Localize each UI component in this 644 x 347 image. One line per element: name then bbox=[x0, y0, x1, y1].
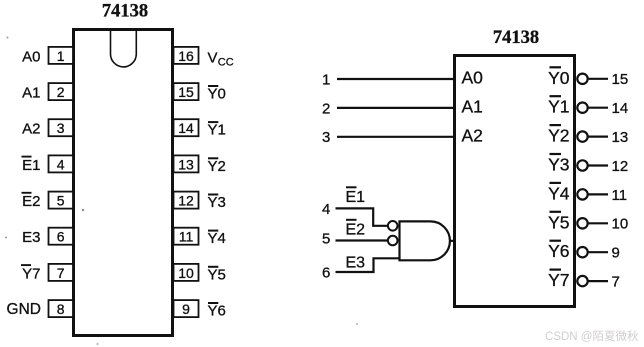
pin 6 number bbox=[322, 265, 330, 282]
wire Y1 to pin 14 bbox=[589, 107, 609, 109]
IC U1 title 74138 (DIP pinout) bbox=[102, 2, 148, 22]
svg-text:6: 6 bbox=[322, 265, 330, 282]
pin 6 box bbox=[49, 228, 74, 245]
inverter bubble Y6 bbox=[577, 247, 587, 257]
svg-text:Y3: Y3 bbox=[548, 155, 569, 175]
pin 4 number bbox=[322, 201, 330, 218]
inverter bubble Y0 bbox=[577, 74, 587, 84]
pin 8 box bbox=[49, 300, 74, 317]
scan speck bbox=[82, 209, 84, 211]
pin Y6-bar label bbox=[548, 241, 569, 262]
pin 10 box bbox=[174, 264, 199, 281]
svg-text:7: 7 bbox=[612, 274, 620, 291]
scan speck bbox=[5, 237, 7, 239]
pin Y5-bar label bbox=[208, 266, 226, 283]
wire input 1 to A0 bbox=[337, 78, 454, 80]
svg-text:13: 13 bbox=[612, 129, 629, 146]
svg-text:Y6: Y6 bbox=[208, 303, 226, 320]
pin 2 number bbox=[322, 100, 330, 117]
svg-text:15: 15 bbox=[178, 84, 194, 100]
pin 15 number bbox=[612, 71, 629, 88]
svg-text:Y4: Y4 bbox=[208, 230, 226, 247]
svg-text:7: 7 bbox=[57, 265, 65, 281]
pin GND label bbox=[7, 301, 41, 318]
svg-text:A2: A2 bbox=[22, 121, 40, 138]
pin 1 number bbox=[322, 71, 330, 88]
pin 11 box bbox=[174, 228, 199, 245]
svg-text:Y5: Y5 bbox=[548, 212, 569, 232]
svg-text:4: 4 bbox=[57, 156, 65, 172]
inverter bubble Y3 bbox=[577, 160, 587, 170]
pin Y3-bar label bbox=[548, 154, 569, 175]
inverter bubble Y5 bbox=[577, 218, 587, 228]
svg-text:A1: A1 bbox=[462, 96, 483, 116]
pin E2-bar label bbox=[22, 193, 41, 210]
svg-text:E1: E1 bbox=[346, 189, 366, 206]
svg-text:Y2: Y2 bbox=[208, 158, 226, 175]
wire Y0 to pin 15 bbox=[589, 78, 609, 80]
svg-text:Y7: Y7 bbox=[548, 270, 569, 290]
svg-text:74138: 74138 bbox=[493, 28, 539, 48]
svg-text:3: 3 bbox=[57, 120, 65, 136]
wire pin4 to E1 bubble bbox=[336, 208, 388, 225]
svg-text:Y6: Y6 bbox=[548, 241, 569, 261]
pin 10 number bbox=[612, 216, 629, 233]
pin E3 label bbox=[22, 229, 40, 246]
pin 1 box bbox=[49, 47, 74, 64]
svg-text:Y1: Y1 bbox=[208, 122, 226, 139]
svg-text:9: 9 bbox=[182, 301, 190, 317]
wire pin6 to E3 gate input bbox=[336, 258, 401, 272]
svg-text:11: 11 bbox=[612, 187, 628, 204]
svg-text:E2: E2 bbox=[346, 221, 366, 238]
svg-text:9: 9 bbox=[612, 245, 620, 262]
pin 11 number bbox=[612, 187, 628, 204]
IC U2 title 74138 (logic symbol) bbox=[493, 28, 539, 48]
pin Y3-bar label bbox=[208, 194, 226, 211]
pin 2 box bbox=[49, 83, 74, 100]
pin VCC label bbox=[208, 49, 234, 68]
inverter bubble Y2 bbox=[577, 131, 587, 141]
svg-text:E1: E1 bbox=[22, 157, 40, 174]
wire Y3 to pin 12 bbox=[589, 164, 609, 166]
pin 4 box bbox=[49, 155, 74, 172]
pin A2 label bbox=[462, 125, 483, 145]
scan speck bbox=[97, 343, 99, 345]
E3 label bbox=[346, 255, 366, 272]
svg-text:12: 12 bbox=[612, 158, 629, 175]
wire input 3 to A2 bbox=[337, 136, 454, 138]
pin Y1-bar label bbox=[208, 122, 226, 139]
svg-text:Y0: Y0 bbox=[548, 68, 570, 88]
svg-text:11: 11 bbox=[179, 229, 194, 245]
pin 14 number bbox=[612, 100, 629, 117]
pin Y7-bar label bbox=[21, 265, 41, 282]
wire input 2 to A1 bbox=[337, 107, 454, 109]
pin 14 box bbox=[174, 119, 199, 136]
svg-text:14: 14 bbox=[178, 120, 194, 136]
svg-text:12: 12 bbox=[178, 193, 194, 209]
wire AND output to body bbox=[449, 240, 455, 242]
E2-bar label bbox=[346, 220, 366, 239]
wire Y5 to pin 10 bbox=[589, 222, 609, 224]
svg-text:Y4: Y4 bbox=[548, 183, 570, 203]
pin Y4-bar label bbox=[208, 230, 226, 247]
IC U1 DIP-16 package body bbox=[74, 30, 173, 336]
pin 3 number bbox=[322, 129, 330, 146]
pin 3 box bbox=[49, 119, 74, 136]
pin A2 label bbox=[22, 121, 40, 138]
svg-text:2: 2 bbox=[322, 100, 330, 117]
pin Y2-bar label bbox=[548, 125, 569, 146]
pin A1 label bbox=[22, 85, 40, 102]
pin 12 number bbox=[612, 158, 629, 175]
svg-text:Y0: Y0 bbox=[208, 86, 226, 103]
svg-text:Y2: Y2 bbox=[548, 126, 569, 146]
svg-text:10: 10 bbox=[178, 265, 194, 281]
svg-text:Y7: Y7 bbox=[22, 265, 40, 282]
pin A0 label bbox=[22, 48, 40, 65]
svg-text:CC: CC bbox=[218, 57, 234, 69]
pin 13 number bbox=[612, 129, 629, 146]
pin Y6-bar label bbox=[208, 303, 226, 320]
inverter bubble E1 bbox=[388, 221, 398, 231]
svg-text:GND: GND bbox=[7, 301, 41, 318]
svg-text:10: 10 bbox=[612, 216, 629, 233]
svg-text:3: 3 bbox=[322, 129, 330, 146]
svg-text:16: 16 bbox=[178, 48, 194, 64]
svg-text:Y3: Y3 bbox=[208, 194, 226, 211]
inverter bubble Y1 bbox=[577, 103, 587, 113]
pin A0 label bbox=[462, 68, 484, 88]
pin 9 number bbox=[612, 245, 620, 262]
watermark CSDN bbox=[545, 329, 639, 343]
svg-text:74138: 74138 bbox=[102, 2, 148, 22]
svg-text:A0: A0 bbox=[462, 68, 484, 88]
svg-text:13: 13 bbox=[178, 156, 194, 172]
pin Y7-bar label bbox=[548, 270, 569, 291]
svg-text:CSDN @陌夏微秋: CSDN @陌夏微秋 bbox=[545, 329, 639, 343]
svg-text:14: 14 bbox=[612, 100, 629, 117]
pin 13 box bbox=[174, 155, 199, 172]
scan speck bbox=[356, 323, 358, 325]
svg-text:A2: A2 bbox=[462, 125, 483, 145]
scan speck bbox=[7, 37, 9, 39]
svg-text:E2: E2 bbox=[22, 193, 40, 210]
svg-text:A1: A1 bbox=[22, 85, 40, 102]
svg-text:A0: A0 bbox=[22, 48, 40, 65]
inverter bubble Y7 bbox=[577, 276, 587, 286]
IC U1 index notch bbox=[111, 31, 137, 67]
svg-text:2: 2 bbox=[57, 84, 65, 100]
wire Y7 to pin 7 bbox=[589, 280, 609, 282]
svg-text:8: 8 bbox=[57, 301, 65, 317]
pin Y4-bar label bbox=[548, 183, 570, 204]
pin Y1-bar label bbox=[548, 96, 569, 117]
pin 15 box bbox=[174, 83, 199, 100]
pin 9 box bbox=[174, 300, 199, 317]
wire Y4 to pin 11 bbox=[589, 193, 609, 195]
IC U2 logic symbol body bbox=[455, 56, 575, 307]
svg-text:5: 5 bbox=[322, 231, 330, 248]
svg-text:Y1: Y1 bbox=[548, 97, 569, 117]
pin 5 box bbox=[49, 192, 74, 209]
wire Y2 to pin 13 bbox=[589, 136, 609, 138]
svg-text:E3: E3 bbox=[22, 229, 40, 246]
svg-text:5: 5 bbox=[57, 193, 65, 209]
pin Y0-bar label bbox=[548, 67, 570, 88]
pin E1-bar label bbox=[22, 157, 41, 174]
pin Y5-bar label bbox=[548, 212, 569, 233]
AND gate U3 enable bbox=[400, 221, 450, 260]
inverter bubble E2 bbox=[388, 236, 398, 246]
svg-text:15: 15 bbox=[612, 71, 629, 88]
pin 12 box bbox=[174, 192, 199, 209]
pin Y0-bar label bbox=[208, 86, 226, 103]
wire Y6 to pin 9 bbox=[589, 251, 609, 253]
svg-text:4: 4 bbox=[322, 201, 330, 218]
pin Y2-bar label bbox=[208, 158, 226, 175]
inverter bubble Y4 bbox=[577, 189, 587, 199]
svg-text:1: 1 bbox=[57, 48, 65, 64]
pin A1 label bbox=[462, 96, 483, 116]
svg-text:6: 6 bbox=[57, 229, 65, 245]
svg-text:E3: E3 bbox=[346, 255, 366, 272]
pin 7 box bbox=[49, 264, 74, 281]
pin 7 number bbox=[612, 274, 620, 291]
pin 5 number bbox=[322, 231, 330, 248]
svg-text:1: 1 bbox=[322, 71, 330, 88]
svg-text:V: V bbox=[208, 49, 218, 66]
svg-text:Y5: Y5 bbox=[208, 266, 226, 283]
pin 16 box bbox=[174, 47, 199, 64]
wire pin5 to E2 bubble bbox=[336, 239, 388, 241]
E1-bar label bbox=[346, 187, 366, 206]
